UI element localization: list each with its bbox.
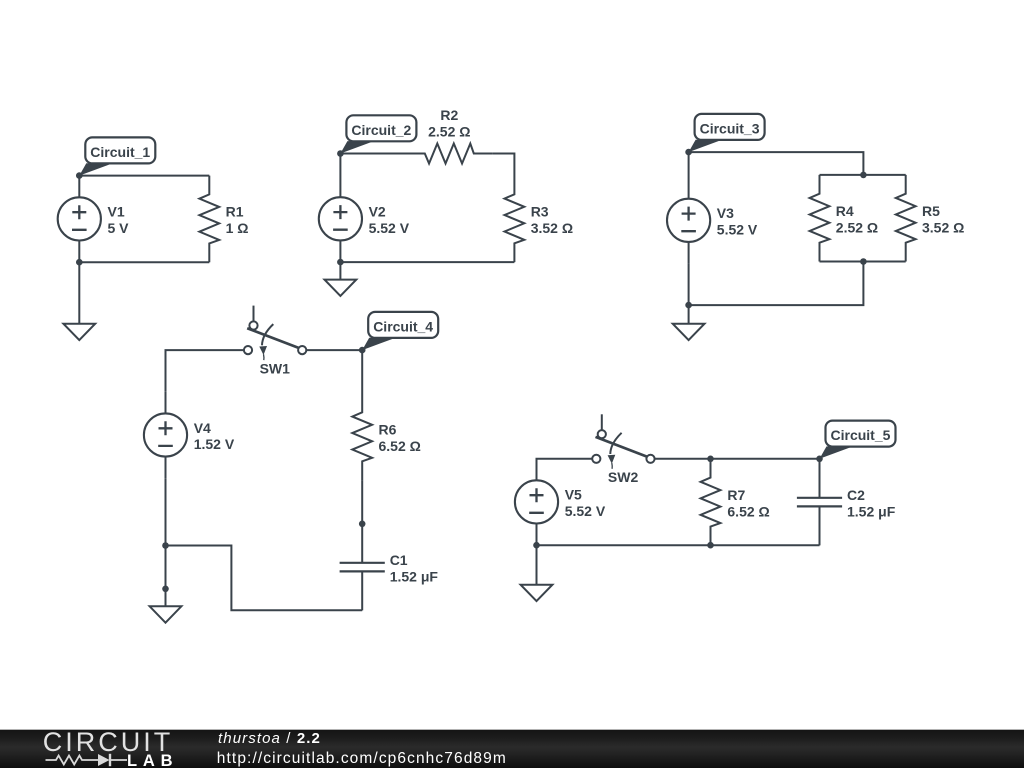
footer title: thurstoa / 2.2: [218, 730, 321, 747]
wire C3 top: [689, 152, 864, 175]
svg-text:Circuit_2: Circuit_2: [351, 122, 411, 138]
wire C4 left lower: [165, 478, 167, 610]
label Circuit_4: [362, 312, 438, 350]
voltage source V1: [58, 176, 129, 263]
resistor R3: [505, 176, 574, 263]
wire C1 bottom: [79, 261, 209, 263]
node C3 parallel bottom junction: [860, 258, 867, 265]
label Circuit_5: [820, 421, 896, 459]
svg-text:SW1: SW1: [260, 360, 291, 376]
CircuitLab logo LAB: [127, 752, 178, 768]
svg-text:5 V: 5 V: [108, 220, 130, 236]
wire C2 source top lead: [339, 154, 341, 176]
svg-text:C2: C2: [847, 487, 865, 503]
wire C4 mid: [361, 480, 363, 524]
voltage source V4: [144, 392, 235, 479]
svg-text:R5: R5: [922, 203, 940, 219]
svg-text:R6: R6: [379, 422, 397, 438]
node C2 top junction: [337, 150, 344, 157]
svg-text:5.52 V: 5.52 V: [565, 503, 606, 519]
wire C3 bottom: [689, 262, 864, 306]
svg-text:R3: R3: [531, 204, 549, 220]
wire C4 right upper: [361, 350, 363, 393]
svg-text:1.52 μF: 1.52 μF: [390, 568, 439, 584]
svg-text:3.52 Ω: 3.52 Ω: [531, 220, 573, 236]
footer url: [217, 750, 507, 768]
ground C2: [325, 262, 357, 296]
svg-text:Circuit_1: Circuit_1: [90, 144, 150, 160]
resistor R5: [896, 175, 965, 262]
wire C4 switch right: [306, 349, 362, 351]
wire C3 parallel top bar: [820, 174, 906, 176]
wire C5 switch left: [537, 459, 593, 480]
node C4 ground junction: [162, 586, 169, 593]
wire C4 switch left: [166, 350, 244, 392]
voltage source V3: [667, 177, 758, 264]
svg-text:R7: R7: [727, 487, 745, 503]
resistor R1: [199, 176, 248, 263]
ground C5: [521, 545, 553, 601]
footer bar: [0, 729, 1024, 768]
node C1 bottom junction: [76, 259, 83, 266]
svg-text:1.52 V: 1.52 V: [194, 436, 235, 452]
CircuitLab logo wordmark: [43, 727, 174, 758]
node C5 switch junction: [707, 456, 714, 463]
wire C3 ground feed: [688, 305, 690, 324]
svg-text:R2: R2: [440, 107, 458, 123]
node C3 parallel top junction: [860, 172, 867, 179]
svg-text:3.52 Ω: 3.52 Ω: [922, 219, 964, 235]
svg-text:V4: V4: [194, 420, 211, 436]
resistor R7: [701, 459, 770, 546]
svg-text:5.52 V: 5.52 V: [717, 222, 758, 238]
wire C5 switch right: [654, 458, 819, 460]
label Circuit_1: [79, 137, 155, 175]
svg-text:V3: V3: [717, 205, 734, 221]
wire C2 bottom: [340, 261, 514, 263]
svg-text:2.52 Ω: 2.52 Ω: [836, 219, 878, 235]
label Circuit_2: [340, 115, 416, 153]
svg-text:2.52 Ω: 2.52 Ω: [428, 123, 470, 139]
svg-text:Circuit_3: Circuit_3: [700, 120, 760, 136]
node C4 top junction: [359, 347, 366, 354]
voltage source V2: [319, 176, 410, 263]
CircuitLab logo resistor-diode glyph: [40, 750, 140, 768]
wire C3 source bottom lead: [688, 264, 690, 306]
svg-text:V1: V1: [108, 204, 125, 220]
wire C2 top left: [340, 153, 406, 155]
svg-text:V5: V5: [565, 487, 582, 503]
ground C3: [673, 324, 705, 340]
resistor R2: [406, 107, 493, 164]
ground C4: [150, 606, 182, 622]
svg-text:1 Ω: 1 Ω: [226, 220, 249, 236]
capacitor C1: [340, 524, 439, 611]
node C5 bottom junction: [707, 542, 714, 549]
wire C3 parallel bottom bar: [820, 261, 906, 263]
svg-text:C1: C1: [390, 552, 408, 568]
node C1 top junction: [76, 172, 83, 179]
svg-text:Circuit_5: Circuit_5: [831, 427, 891, 443]
node C3 top junction: [685, 149, 692, 156]
node C2 bottom junction: [337, 259, 344, 266]
svg-text:6.52 Ω: 6.52 Ω: [727, 503, 769, 519]
capacitor C2: [797, 459, 896, 546]
svg-text:R1: R1: [226, 204, 244, 220]
voltage source V5: [515, 459, 606, 546]
wire C5 bottom: [537, 544, 820, 546]
resistor R6: [352, 394, 421, 481]
switch SW1: [244, 306, 306, 377]
wire C2 top right: [493, 154, 515, 176]
svg-text:6.52 Ω: 6.52 Ω: [379, 438, 421, 454]
node C4 left junction: [162, 542, 169, 549]
svg-text:SW2: SW2: [608, 469, 639, 485]
wire C1 top: [79, 175, 209, 177]
resistor R4: [810, 175, 879, 262]
node C5 source bottom junction: [533, 542, 540, 549]
node C4 cap junction: [359, 521, 366, 528]
wire C3 source top lead: [688, 152, 690, 177]
switch SW2: [592, 414, 654, 485]
ground C1: [63, 324, 95, 340]
label Circuit_3: [689, 114, 765, 152]
svg-text:Circuit_4: Circuit_4: [373, 318, 433, 334]
wire C4 bottom jog: [166, 546, 363, 611]
node C5 cap junction: [816, 456, 823, 463]
wire C1 ground feed: [78, 262, 80, 324]
svg-text:V2: V2: [369, 204, 386, 220]
svg-text:5.52 V: 5.52 V: [369, 220, 410, 236]
node C3 bottom junction: [685, 302, 692, 309]
svg-text:1.52 μF: 1.52 μF: [847, 503, 896, 519]
svg-text:R4: R4: [836, 203, 854, 219]
